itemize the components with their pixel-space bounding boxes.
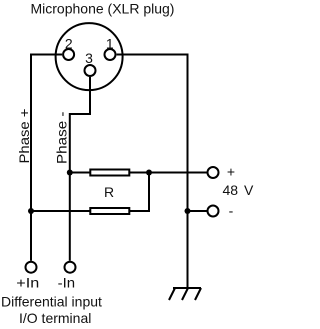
pin 2 xyxy=(63,49,74,60)
svg-text:48: 48 xyxy=(223,182,239,198)
terminal -In xyxy=(65,262,76,273)
svg-text:3: 3 xyxy=(85,50,93,66)
terminal - xyxy=(208,206,219,217)
wire top resistor to +48V terminal xyxy=(129,172,208,174)
ground (chassis) xyxy=(169,288,201,300)
wire Phase- node to top resistor xyxy=(70,172,91,174)
resistor R (bottom, Phase+ feed) xyxy=(90,208,129,214)
junction on Phase- at top resistor xyxy=(67,170,73,176)
svg-text:V: V xyxy=(244,182,254,198)
wire Phase+ vertical (pin2 down to +In terminal) xyxy=(30,54,32,261)
wire pin1 right and down to ground xyxy=(117,55,188,289)
svg-text:+In: +In xyxy=(16,275,39,291)
terminal +In xyxy=(26,262,37,273)
resistor R (top, Phase- feed) xyxy=(90,170,129,176)
wire ground to - terminal xyxy=(188,210,209,212)
svg-text:Differential input: Differential input xyxy=(1,293,102,309)
svg-text:Microphone (XLR plug): Microphone (XLR plug) xyxy=(31,1,175,17)
terminal +48V xyxy=(208,167,219,178)
svg-text:I/O terminal: I/O terminal xyxy=(19,310,91,326)
wire pin2 to Phase+ vertical xyxy=(31,54,62,56)
pin 3 xyxy=(85,65,96,76)
junction on ground wire at - terminal xyxy=(185,208,191,214)
svg-text:2: 2 xyxy=(65,36,73,52)
svg-text:Phase +: Phase + xyxy=(16,109,32,164)
wire Phase+ node to bottom resistor xyxy=(31,210,90,212)
wire pin3 down, jog left, Phase- vertical to -In terminal xyxy=(70,77,90,261)
svg-text:+: + xyxy=(227,164,235,180)
junction on Phase+ at bottom resistor xyxy=(28,208,34,214)
wire bottom resistor up to +48V node xyxy=(129,173,149,212)
svg-text:1: 1 xyxy=(106,36,114,52)
svg-text:-In: -In xyxy=(58,275,76,291)
svg-text:R: R xyxy=(104,184,114,200)
svg-text:Phase -: Phase - xyxy=(54,111,70,164)
connector J1 XLR plug body xyxy=(56,23,123,90)
pin 1 xyxy=(105,49,116,60)
junction at +48V resistor node xyxy=(146,170,152,176)
svg-text:-: - xyxy=(229,203,234,219)
